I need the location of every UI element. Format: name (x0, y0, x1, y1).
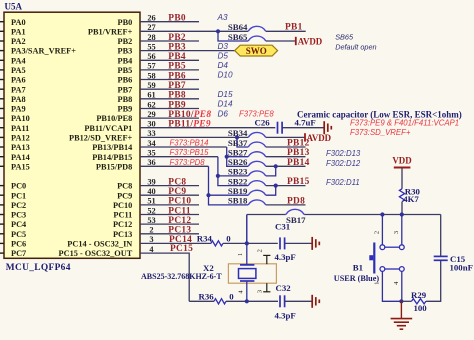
svg-text:PB5: PB5 (168, 62, 186, 72)
ground under button (400, 301, 402, 318)
svg-text:3: 3 (257, 290, 264, 293)
junction node PC14/XTAL (245, 241, 249, 245)
svg-text:MCU_LQFP64: MCU_LQFP64 (6, 263, 71, 273)
resistor R30 4K7 (399, 189, 404, 202)
svg-text:PC1: PC1 (11, 191, 26, 200)
svg-text:PB11/PE9: PB11/PE9 (168, 120, 211, 130)
wire C31 to ground (285, 242, 313, 244)
pin stub left PA9 (0, 108, 4, 110)
svg-text:SWO: SWO (246, 46, 267, 56)
svg-text:F373:SD_VREF+: F373:SD_VREF+ (350, 128, 411, 137)
svg-text:1: 1 (237, 253, 244, 256)
wire pin row PC11 (140, 214, 199, 216)
capacitor C31 4.3pF (279, 237, 281, 249)
svg-text:C26: C26 (255, 118, 271, 128)
svg-text:A3: A3 (217, 13, 228, 22)
svg-text:PC11: PC11 (168, 206, 191, 216)
capacitor C15 100nF (434, 255, 448, 257)
wire button pin2 stub (381, 215, 383, 245)
wire pin36 down to SB19/SB18 (209, 166, 249, 205)
solder bridge SB64 (248, 26, 266, 31)
svg-text:PB2: PB2 (168, 33, 186, 43)
wire SB64 to PB1 (266, 30, 306, 32)
svg-text:100: 100 (414, 303, 428, 313)
svg-text:D15: D15 (218, 90, 233, 99)
svg-text:SB65: SB65 (228, 32, 248, 42)
svg-text:PC14 - OSC32_IN: PC14 - OSC32_IN (67, 240, 132, 249)
wire pin row PB5 (140, 69, 199, 71)
svg-text:PC12: PC12 (168, 216, 191, 226)
svg-text:PC3: PC3 (11, 211, 26, 220)
svg-text:U5A: U5A (5, 2, 23, 12)
svg-text:PC13: PC13 (113, 230, 132, 239)
svg-text:F302:D13: F302:D13 (326, 149, 361, 158)
svg-text:SB18: SB18 (228, 196, 248, 206)
wire SB19 jog to PB15 (266, 186, 276, 196)
svg-text:PA4: PA4 (11, 56, 26, 65)
button B1 actuator (373, 243, 375, 274)
wire C32 to ground (285, 300, 313, 302)
wire net PB14 (266, 165, 306, 167)
pin stub left PC6 (0, 242, 4, 244)
svg-text:D4: D4 (218, 61, 229, 70)
svg-text:PC12: PC12 (113, 220, 132, 229)
wire button pin3 stub (401, 215, 403, 245)
svg-text:100nF: 100nF (450, 263, 473, 273)
svg-text:AVDD: AVDD (307, 133, 332, 143)
wire pin35 (140, 156, 218, 158)
svg-text:B1: B1 (353, 263, 363, 273)
svg-text:PC10: PC10 (113, 201, 132, 210)
svg-text:PC6: PC6 (11, 240, 26, 249)
wire node SB17 line (247, 214, 286, 216)
pin stub left PC5 (0, 233, 4, 235)
capacitor C26 (277, 122, 279, 134)
svg-text:1: 1 (374, 282, 381, 285)
junction node PC15/XTAL (245, 299, 249, 303)
svg-text:PD8: PD8 (287, 196, 305, 206)
power port AVDD (top) (295, 37, 297, 45)
solder bridge SB23 (248, 171, 266, 176)
svg-text:PA3/SAR_VREF+: PA3/SAR_VREF+ (11, 47, 76, 56)
crystal pin3 stub (NC) (266, 283, 268, 292)
svg-text:PC9: PC9 (117, 191, 132, 200)
pin stub left PA10 (0, 117, 4, 119)
wire pin33 down to SB37 (237, 137, 248, 147)
wire pin3 PC14 to R34 (140, 242, 211, 244)
svg-text:SB34: SB34 (228, 128, 248, 138)
crystal X2 ABS25-32.768KHZ-6-T box (228, 264, 276, 283)
pin stub left PA8 (0, 98, 4, 100)
wire pin row PB7 (140, 88, 199, 90)
svg-text:SB65: SB65 (335, 33, 354, 42)
wire SB17 line down to PC14 node (246, 215, 248, 244)
wire crystal pin4 to R36 node (246, 281, 248, 301)
svg-text:4.3pF: 4.3pF (275, 310, 296, 320)
svg-text:SB27: SB27 (228, 148, 248, 158)
svg-text:PB8: PB8 (168, 91, 186, 101)
power port AVDD (middle) (304, 133, 306, 141)
solder bridge SB34 (248, 132, 266, 137)
pin stub left PA12 (0, 136, 4, 138)
svg-text:PB10/PE8: PB10/PE8 (96, 114, 132, 123)
crystal symbol (246, 215, 248, 265)
svg-text:PC10: PC10 (168, 197, 191, 207)
wire pin row PB2 (140, 40, 199, 42)
svg-text:PB3: PB3 (168, 42, 186, 52)
wire pin34 down to SB27/SB26 (227, 147, 249, 166)
pin stub left PA0 (0, 21, 4, 23)
solder bridge SB27 (248, 152, 266, 157)
pin stub left PA5 (0, 69, 4, 71)
solder bridge SB19 (248, 190, 266, 195)
port SWO (235, 45, 278, 56)
pin stub left PA13 (0, 146, 4, 148)
wire pin row PB0 (140, 21, 199, 23)
pin stub left PA2 (0, 40, 4, 42)
svg-text:PC2: PC2 (11, 201, 26, 210)
svg-text:PB0: PB0 (168, 14, 186, 24)
pin stub left PA6 (0, 79, 4, 81)
wire R36 to node (189, 300, 214, 302)
svg-text:PC15 - OSC32_OUT: PC15 - OSC32_OUT (59, 249, 133, 258)
junction node button pin2 (380, 212, 384, 216)
wire C26 to ground (282, 127, 324, 129)
svg-text:PB9: PB9 (168, 100, 186, 110)
svg-text:PC4: PC4 (11, 220, 26, 229)
svg-text:C31: C31 (275, 222, 290, 232)
svg-text:PB1/VREF+: PB1/VREF+ (88, 27, 133, 36)
wire pin row PC10 (140, 204, 199, 206)
wire pin row PC9 (140, 194, 199, 196)
svg-text:PB12/SD_VREF+: PB12/SD_VREF+ (69, 134, 133, 143)
ground (rotated) after C32 (311, 295, 313, 308)
wire pin33 PB12/SD_VREF+ (140, 136, 248, 138)
pin stub left PC4 (0, 223, 4, 225)
button B1 contacts bottom (380, 267, 385, 272)
junction node R30/line (400, 212, 404, 216)
svg-text:PB7: PB7 (168, 81, 186, 91)
svg-text:PC8: PC8 (168, 177, 186, 187)
svg-text:PA8: PA8 (11, 95, 26, 104)
svg-text:F373:PD8: F373:PD8 (170, 158, 206, 167)
junction node pin27 (216, 29, 220, 33)
svg-text:F373:PB15: F373:PB15 (170, 148, 210, 157)
pin stub left PA4 (0, 59, 4, 61)
resistor R29 value 100 (412, 299, 426, 304)
svg-text:PA6: PA6 (11, 76, 26, 85)
wire SB65 to AVDD (266, 40, 296, 42)
pin stub left PC7 (0, 252, 4, 254)
svg-text:PA15: PA15 (11, 162, 30, 171)
svg-text:PA14: PA14 (11, 153, 30, 162)
svg-text:USER (Blue): USER (Blue) (334, 274, 380, 283)
capacitor C32 4.3pF (279, 295, 281, 307)
ground (rotated) after C26 (323, 121, 325, 134)
wire vertical to SB65 (218, 31, 248, 41)
svg-text:4.3pF: 4.3pF (275, 252, 296, 262)
svg-text:PC8: PC8 (117, 182, 132, 191)
pin stub left PA3/SAR_VREF+ (0, 50, 4, 52)
svg-text:2: 2 (257, 249, 264, 252)
svg-text:D14: D14 (218, 100, 233, 109)
pin stub left PC2 (0, 204, 4, 206)
svg-text:F302:D11: F302:D11 (326, 178, 360, 187)
svg-text:PB13/PB14: PB13/PB14 (92, 143, 132, 152)
svg-text:PA1: PA1 (11, 27, 26, 36)
svg-text:PA0: PA0 (11, 18, 26, 27)
svg-text:PB2: PB2 (118, 37, 133, 46)
svg-text:PA9: PA9 (11, 105, 26, 114)
wire pin row PB6 (140, 79, 199, 81)
wire pin30 PB11 to C26 (140, 127, 275, 129)
wire pin row PB9 (140, 108, 199, 110)
wire node to R29 (401, 300, 411, 302)
junction node ground branch (399, 299, 403, 303)
junction node pin34/SB27 (225, 155, 229, 159)
svg-text:F373:PE9 & F401/F411:VCAP1: F373:PE9 & F401/F411:VCAP1 (350, 119, 459, 128)
svg-text:PC0: PC0 (11, 182, 26, 191)
svg-text:D6: D6 (218, 109, 229, 118)
wire pin row PC8 (140, 185, 199, 187)
svg-text:F373:PB14: F373:PB14 (170, 139, 210, 148)
svg-text:PB0: PB0 (118, 18, 133, 27)
junction node pin36/SB19 (206, 193, 210, 197)
svg-text:SB23: SB23 (228, 167, 248, 177)
wire pin27 PB1/VREF+ (140, 30, 248, 32)
resistor R34 value 0 (211, 241, 223, 246)
svg-text:SB37: SB37 (228, 138, 248, 148)
crystal pin2 stub (NC) (266, 255, 268, 264)
svg-text:PB9: PB9 (118, 105, 133, 114)
junction node pin35/SB23 (216, 174, 220, 178)
junction node pin33 (235, 135, 239, 139)
svg-text:R34: R34 (197, 234, 213, 244)
wire SB23 jog to PB14 (266, 166, 276, 176)
wire pin row PB8 (140, 98, 199, 100)
svg-text:4K7: 4K7 (403, 194, 419, 204)
svg-text:PC11: PC11 (113, 211, 132, 220)
svg-text:R29: R29 (411, 290, 427, 300)
svg-text:PB15/PD8: PB15/PD8 (96, 162, 132, 171)
resistor R36 value 0 (214, 299, 226, 304)
svg-text:2: 2 (374, 231, 381, 234)
wire pin row PC12 (140, 223, 199, 225)
solder bridge SB26 (248, 161, 266, 166)
svg-text:PA13: PA13 (11, 143, 30, 152)
svg-text:PA5: PA5 (11, 66, 26, 75)
svg-text:PB6: PB6 (118, 76, 133, 85)
wire R29 to C15 (426, 260, 441, 301)
wire R34 to C31 (223, 242, 278, 244)
svg-text:D10: D10 (218, 71, 233, 80)
button B1 contacts top (380, 245, 385, 250)
svg-text:SB26: SB26 (228, 157, 248, 167)
svg-text:D3: D3 (218, 42, 229, 51)
svg-text:PB15: PB15 (287, 177, 310, 187)
wire button pin4 down (401, 271, 403, 301)
svg-text:PB14/PB15: PB14/PB15 (92, 153, 132, 162)
solder bridge SB17 (286, 209, 304, 214)
svg-text:PB11/VCAP1: PB11/VCAP1 (84, 124, 132, 133)
solder bridge SB65 (248, 36, 266, 41)
svg-text:SB64: SB64 (228, 22, 248, 32)
svg-text:PC13: PC13 (168, 226, 191, 236)
pin stub left PA11 (0, 127, 4, 129)
svg-text:SB19: SB19 (228, 186, 248, 196)
svg-text:PA2: PA2 (11, 37, 26, 46)
wire C15 top to line (440, 215, 442, 257)
svg-text:SB22: SB22 (228, 176, 248, 186)
wire SB34 to AVDD (266, 136, 305, 138)
svg-text:PC15: PC15 (170, 244, 193, 254)
svg-text:PB3: PB3 (118, 47, 133, 56)
svg-text:0: 0 (229, 292, 234, 302)
svg-text:PB13: PB13 (287, 148, 310, 158)
svg-text:PC9: PC9 (168, 187, 186, 197)
svg-text:0: 0 (226, 234, 231, 244)
wire pin55 PB3 to SWO port (140, 50, 235, 52)
svg-text:PB4: PB4 (118, 56, 133, 65)
wire pin36 (140, 165, 209, 167)
wire pin row PC13 (140, 233, 199, 235)
wire net PB15 (266, 185, 306, 187)
svg-text:PB8: PB8 (118, 95, 133, 104)
svg-text:PB14: PB14 (287, 158, 310, 168)
pin stub left PA14 (0, 156, 4, 158)
svg-text:PA11: PA11 (11, 124, 29, 133)
solder bridge SB37 (248, 142, 266, 147)
wire pin34 (140, 146, 227, 148)
svg-text:PA10: PA10 (11, 114, 30, 123)
wire pin row PB10/PE8 (140, 117, 199, 119)
svg-text:PB10/PE8: PB10/PE8 (168, 110, 211, 120)
wire net PB12 (266, 146, 306, 148)
svg-text:PB4: PB4 (168, 52, 186, 62)
pin stub left PC1 (0, 194, 4, 196)
wire net PD8 (266, 204, 306, 206)
svg-text:PC7: PC7 (11, 249, 26, 258)
svg-text:PB12: PB12 (287, 139, 310, 149)
svg-text:C32: C32 (276, 283, 292, 293)
svg-text:PB1: PB1 (285, 23, 303, 33)
solder bridge SB18 (248, 200, 266, 205)
svg-text:R36: R36 (199, 292, 215, 302)
pin stub left PC3 (0, 214, 4, 216)
wire pin35 down to SB23/SB22 (218, 157, 248, 186)
svg-text:PC5: PC5 (11, 230, 26, 239)
solder bridge SB22 (248, 181, 266, 186)
MCU U5A MCU_LQFP64 body (4, 12, 140, 258)
svg-text:D5: D5 (218, 52, 229, 61)
svg-text:VDD: VDD (392, 156, 411, 166)
wire button pin1 down (382, 271, 401, 301)
svg-text:ABS25-32.768KHZ-6-T: ABS25-32.768KHZ-6-T (141, 272, 222, 281)
pin stub left PA15 (0, 165, 4, 167)
svg-text:PB7: PB7 (118, 85, 133, 94)
svg-text:F302:D12: F302:D12 (326, 159, 361, 168)
svg-text:3: 3 (393, 231, 400, 234)
svg-text:PA7: PA7 (11, 85, 26, 94)
ground (rotated) after C31 (311, 237, 313, 250)
wire pin4 PC15 down to R36 (140, 253, 189, 301)
svg-text:PB6: PB6 (168, 71, 186, 81)
pin stub left PA7 (0, 88, 4, 90)
svg-text:PB5: PB5 (118, 66, 133, 75)
wire net PB13 (266, 156, 306, 158)
pin stub left PA1 (0, 30, 4, 32)
wire pin row PB4 (140, 59, 199, 61)
svg-text:AVDD: AVDD (298, 36, 323, 46)
svg-text:PA12: PA12 (11, 134, 30, 143)
pin stub left PC0 (0, 185, 4, 187)
svg-text:Default open: Default open (335, 42, 376, 51)
